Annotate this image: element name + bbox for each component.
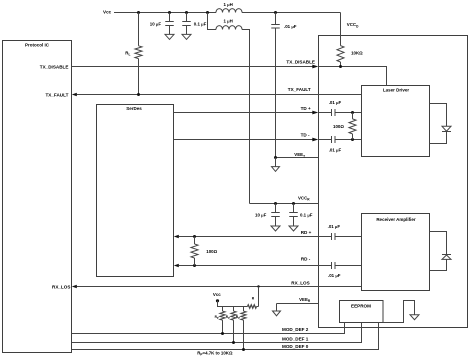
resistor RP2 (MOD_DEF1 pull-up) [226, 307, 236, 343]
junction RX_LOS / pull-up R4 [257, 285, 259, 287]
note RP value [197, 350, 233, 356]
label MOD_DEF2 [282, 327, 309, 332]
ground below C7 [289, 226, 298, 231]
resistor R4 (RX_LOS pull-up) [248, 296, 257, 308]
wire VEER ground drop [276, 304, 278, 312]
wire VEET [276, 157, 319, 159]
label TX_DISABLE at module [286, 59, 315, 64]
wire EEPROM ground route [383, 301, 415, 323]
capacitor C4 0.01uF (TD+ coupling) [319, 100, 362, 116]
laser diode D1 [442, 126, 451, 131]
svg-text:RX_LOS: RX_LOS [52, 284, 70, 289]
optical module boundary [319, 36, 468, 328]
arrow TX_FAULT into Protocol IC [72, 93, 77, 96]
capacitor C7 0.1uF (VCCR bypass) [289, 204, 313, 227]
node Vcc (top supply) [103, 10, 112, 15]
svg-text:SerDes: SerDes [126, 106, 142, 111]
wire photodiode cathode [430, 232, 447, 255]
inductor L2 1uH (lower) [216, 19, 242, 30]
label MOD_DEF0 [282, 344, 309, 349]
svg-text:TD -: TD - [301, 132, 310, 137]
capacitor C1 10uF [150, 13, 174, 35]
svg-text:.01 μF: .01 μF [328, 224, 341, 229]
wire TD+ from SerDes [174, 112, 314, 114]
junction MOD_DEF2 / RP1 [221, 332, 224, 335]
label TX_FAULT at Protocol IC [46, 92, 69, 97]
arrow RX_LOS into Protocol IC [72, 285, 77, 288]
svg-text:EEPROM: EEPROM [351, 304, 371, 309]
junction VEET / C3 [274, 156, 277, 159]
label TD- [301, 132, 310, 137]
ground at EEPROM [410, 315, 419, 320]
wire RD+ [179, 236, 362, 238]
svg-text:MOD_DEF 1: MOD_DEF 1 [282, 337, 309, 342]
wire VCCD drop [340, 13, 342, 46]
wire Vcc pull-up rail [218, 301, 259, 307]
junction Vcc rail / L2 branch [206, 11, 209, 14]
wire RD- [179, 265, 362, 267]
label RX_LOS at Protocol IC [52, 284, 70, 289]
capacitor C8 0.01uF (RD+ coupling) [328, 224, 341, 240]
svg-text:Protocol IC: Protocol IC [25, 42, 50, 47]
ground at VEER [273, 311, 281, 316]
arrow RD- into SerDes [174, 264, 179, 267]
wire R4 to RX_LOS [258, 287, 260, 307]
Protocol IC box U1 [3, 41, 72, 353]
svg-text:TD +: TD + [301, 106, 311, 111]
junction Vcc rail / RL [137, 11, 140, 14]
wire TX_DISABLE [72, 66, 314, 68]
capacitor C3 0.01uF (VCCD to VEET) [271, 13, 297, 158]
resistor R2 100ohm (TD termination) [333, 113, 356, 140]
ground below C1 [165, 34, 174, 39]
arrow TD+ into module [312, 111, 318, 115]
wire photodiode anode [430, 259, 447, 270]
junction VCCR / C6 [274, 202, 277, 205]
svg-text:RX_LOS: RX_LOS [291, 281, 309, 286]
svg-text:.01 μF: .01 μF [328, 273, 341, 278]
junction TX_DISABLE / 10K [339, 65, 342, 68]
svg-text:.01 μF: .01 μF [329, 100, 342, 105]
junction VCCR / C7 [292, 202, 295, 205]
junction MOD_DEF0 / RP3 [242, 348, 245, 351]
svg-text:RD -: RD - [301, 257, 311, 262]
svg-text:.01 μF: .01 μF [284, 24, 297, 29]
terminal dot Vcc bottom [216, 299, 219, 302]
wire VEET ground drop [275, 158, 277, 167]
svg-text:Vcc: Vcc [103, 10, 112, 15]
wire L2 branch [208, 13, 217, 30]
capacitor C2 0.1uF [182, 13, 206, 35]
junction Vcc rail / C1 [168, 11, 171, 14]
label TX_DISABLE at Protocol IC [40, 65, 69, 70]
svg-text:10 μF: 10 μF [150, 21, 162, 26]
junction RD- / R3 [193, 264, 196, 267]
svg-text:10 μF: 10 μF [255, 213, 267, 218]
svg-text:Receiver Amplifier: Receiver Amplifier [376, 217, 416, 222]
arrow TD- into module [312, 138, 318, 142]
wire Vcc rail [114, 12, 341, 14]
label VCCR [298, 196, 310, 202]
capacitor C9 0.01uF (RD- coupling) [328, 262, 341, 278]
SerDes box U2 [97, 105, 174, 277]
svg-text:MOD_DEF 0: MOD_DEF 0 [282, 344, 309, 349]
wire VEER [277, 303, 319, 305]
svg-text:1 μH: 1 μH [224, 2, 233, 7]
resistor RL (TX_FAULT pull-up) [125, 13, 142, 95]
svg-text:TX_FAULT: TX_FAULT [288, 87, 311, 92]
label RD+ [301, 230, 312, 235]
node VCCD [347, 22, 359, 28]
resistor R1 10Kohm (TX_DISABLE pull-up) [337, 46, 363, 67]
Receiver Amplifier box U4 [362, 214, 430, 291]
svg-text:0.1 μF: 0.1 μF [194, 21, 207, 26]
junction TD+ / R2 [351, 111, 354, 114]
Laser Driver box U3 [362, 86, 430, 157]
wire MOD_DEF1 [72, 323, 362, 343]
arrow RD+ into SerDes [174, 235, 179, 238]
capacitor C5 0.01uF (TD- coupling) [319, 136, 362, 153]
svg-text:.01 μF: .01 μF [329, 148, 342, 153]
svg-text:TX_DISABLE: TX_DISABLE [40, 65, 69, 70]
wire VCCR rail [250, 203, 319, 205]
resistor RP3 (MOD_DEF0 pull-up) [236, 307, 246, 350]
svg-text:RD +: RD + [301, 230, 312, 235]
wire RX_LOS [77, 286, 362, 288]
svg-text:1 μH: 1 μH [224, 19, 233, 24]
arrow TX_DISABLE into module [312, 65, 318, 69]
wire MOD_DEF2 [72, 323, 345, 334]
junction Vcc rail / C2 [185, 11, 188, 14]
junction TD- / R2 [351, 138, 354, 141]
wire laser diode anode [430, 104, 447, 127]
ground at VEET [272, 167, 280, 172]
svg-text:0.1 μF: 0.1 μF [300, 213, 313, 218]
wire TX_FAULT [77, 94, 362, 96]
label VEER [299, 297, 311, 303]
label TD+ [301, 106, 311, 111]
svg-text:TX_FAULT: TX_FAULT [46, 92, 69, 97]
resistor R3 100ohm (RD termination) [191, 237, 218, 266]
junction Vcc rail / C3 [274, 11, 277, 14]
wire laser diode cathode [430, 132, 447, 144]
label RD- [301, 257, 311, 262]
node Vcc (bottom) [213, 292, 221, 297]
ground below C6 [271, 226, 280, 231]
svg-text:Vcc: Vcc [213, 292, 221, 297]
wire TX_DISABLE inside module [319, 67, 387, 86]
svg-text:TX_DISABLE: TX_DISABLE [286, 59, 315, 64]
inductor L1 1uH (top) [216, 2, 242, 13]
wire L2 output to VCCR rail [242, 30, 250, 204]
EEPROM box U5 [340, 301, 384, 323]
label RX_LOS at module [291, 281, 309, 286]
svg-text:MOD_DEF 2: MOD_DEF 2 [282, 327, 309, 332]
junction RD+ / R3 [193, 235, 196, 238]
svg-text:Laser Driver: Laser Driver [383, 88, 410, 93]
svg-text:100Ω: 100Ω [206, 249, 217, 254]
capacitor C6 10uF (VCCR bypass) [255, 204, 280, 227]
svg-text:100Ω: 100Ω [333, 124, 344, 129]
label MOD_DEF1 [282, 337, 309, 342]
svg-text:10KΩ: 10KΩ [351, 51, 363, 56]
resistor RP1 (MOD_DEF2 pull-up) [215, 307, 226, 334]
wire MOD_DEF0 [72, 323, 379, 350]
junction TX_FAULT / RL [137, 93, 140, 96]
ground below C2 [182, 34, 191, 39]
label VEET [294, 152, 305, 158]
wire TD- from SerDes [174, 139, 314, 141]
label TX_FAULT at module [288, 87, 311, 92]
photodiode D2 [442, 255, 451, 260]
junction MOD_DEF1 / RP2 [232, 341, 235, 344]
